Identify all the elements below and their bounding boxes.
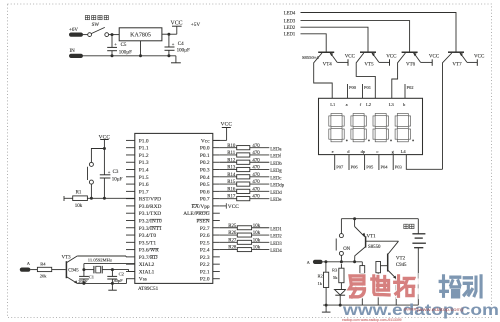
- svg-text:10k: 10k: [253, 246, 261, 251]
- MCU pin 15 P3.5/T1: [126, 241, 135, 243]
- svg-text:P0.3: P0.3: [200, 168, 210, 174]
- svg-text:P04: P04: [381, 164, 389, 169]
- wire to reset button: [91, 149, 104, 163]
- overline WR: [150, 247, 159, 249]
- resistor R16 470: [220, 190, 237, 192]
- svg-text:L1: L1: [330, 102, 335, 107]
- svg-text:+: +: [108, 169, 111, 174]
- wire XIAL2: [84, 263, 135, 265]
- svg-text:P0.7: P0.7: [200, 197, 210, 203]
- svg-text:470: 470: [252, 195, 260, 200]
- MCU pin 17 P3.7/RD: [126, 256, 135, 258]
- svg-text:P0.2: P0.2: [200, 160, 210, 166]
- MCU pin 23 P2.2: [213, 263, 220, 265]
- wire LED4 to VT7 base: [301, 13, 457, 52]
- svg-text:R11: R11: [227, 151, 236, 156]
- svg-text:470: 470: [252, 151, 260, 156]
- svg-text:470: 470: [252, 173, 260, 178]
- svg-text:KA7805: KA7805: [130, 33, 151, 39]
- MCU pin 1 P1.0: [126, 139, 135, 141]
- collector wire VT7: [443, 53, 452, 169]
- svg-text:470: 470: [252, 166, 260, 171]
- svg-text:100µF: 100µF: [177, 49, 190, 54]
- svg-text:P3.0/RXD: P3.0/RXD: [139, 204, 162, 210]
- VCC tick VT5: [389, 59, 391, 66]
- svg-text:R26: R26: [228, 231, 237, 236]
- svg-text:VT7: VT7: [452, 63, 462, 68]
- 7-segment digit 2: [351, 114, 366, 142]
- resistor R17 470: [220, 198, 237, 200]
- MCU pin 21 P2.0: [213, 278, 220, 280]
- stub wire segment f / net P01: [362, 84, 364, 98]
- svg-text:470: 470: [252, 158, 260, 163]
- svg-text:C2: C2: [119, 272, 124, 277]
- resistor R11 470: [220, 154, 237, 156]
- svg-text:+5V: +5V: [191, 22, 201, 28]
- svg-text:P07: P07: [336, 164, 344, 169]
- svg-text:AT89C51: AT89C51: [138, 286, 159, 292]
- MCU pin 11 P3.1/TXD: [126, 212, 135, 214]
- svg-text:10k: 10k: [253, 231, 261, 236]
- svg-text:P0.6: P0.6: [200, 189, 210, 195]
- svg-text:C3: C3: [113, 170, 119, 175]
- svg-text:30pF: 30pF: [113, 278, 123, 283]
- regulator U2 KA7805: [119, 28, 162, 41]
- svg-text:VCC: VCC: [474, 55, 485, 60]
- transistor VT7 S8550 PNP: [448, 51, 464, 53]
- MCU pin 24 P2.3: [213, 256, 220, 258]
- svg-text:LED1: LED1: [270, 227, 282, 232]
- svg-text:20pF: 20pF: [78, 279, 88, 284]
- svg-text:VCC: VCC: [345, 55, 356, 60]
- MCU pin 30 ALE/PROG: [213, 212, 220, 214]
- svg-text:P0.0: P0.0: [200, 146, 210, 152]
- VCC rail symbol / +5V: [176, 26, 178, 34]
- MCU pin 3 P1.2: [126, 154, 135, 156]
- MCU pin 22 P2.1: [213, 270, 220, 272]
- wire LED2 to VT5 base: [301, 27, 369, 51]
- svg-text:c: c: [376, 149, 378, 154]
- MCU U1 AT89C51 body: [135, 133, 213, 283]
- resistor R15 470: [220, 183, 237, 185]
- svg-text:100µF: 100µF: [119, 51, 132, 56]
- svg-text:VCC: VCC: [221, 122, 233, 128]
- stub wire / net P04: [378, 155, 380, 170]
- MCU pin 40 Vcc: [213, 139, 220, 141]
- svg-text:dp: dp: [361, 149, 366, 154]
- svg-text:LEDf: LEDf: [270, 155, 281, 160]
- svg-text:VCC: VCC: [171, 21, 183, 27]
- svg-text:ON: ON: [343, 247, 350, 252]
- MCU pin 39 P0.0: [213, 147, 220, 149]
- wire Vcc pin to VCC: [213, 139, 227, 141]
- svg-text:VT2: VT2: [396, 257, 406, 262]
- svg-text:LEDc: LEDc: [270, 176, 281, 181]
- stub wire / net P03: [392, 155, 394, 170]
- MCU pin 29 PSEN: [213, 219, 220, 221]
- svg-text:LED2: LED2: [284, 26, 296, 31]
- svg-text:P03: P03: [395, 164, 403, 169]
- stub wire / net P07: [334, 155, 336, 170]
- svg-text:470: 470: [252, 180, 260, 185]
- 7-segment digit 1: [329, 114, 344, 142]
- svg-text:10k: 10k: [75, 204, 83, 209]
- MCU pin 26 P2.5: [213, 241, 220, 243]
- svg-text:XIAL1: XIAL1: [139, 269, 155, 275]
- svg-text:P00: P00: [349, 85, 357, 90]
- svg-text:L3: L3: [389, 102, 395, 107]
- resistor R26 10k: [220, 234, 238, 236]
- svg-text:R15: R15: [227, 180, 236, 185]
- MCU pin 16 P3.6/WR: [126, 249, 135, 251]
- svg-text:L4: L4: [401, 149, 407, 154]
- svg-text:R28: R28: [228, 246, 237, 251]
- svg-text:LED3: LED3: [284, 20, 296, 25]
- VCC tick VT6: [431, 59, 433, 66]
- svg-text:LEDb: LEDb: [270, 162, 282, 167]
- svg-text:LED4: LED4: [270, 249, 282, 254]
- MCU pin 9 RST/VPD: [126, 198, 135, 200]
- svg-text:a: a: [346, 102, 348, 107]
- capacitor C4 100uF: [168, 34, 170, 47]
- svg-text:VT6: VT6: [406, 63, 416, 68]
- wire XIAL1: [112, 270, 134, 272]
- top rail (battery +): [341, 218, 418, 220]
- wire A to R4: [30, 269, 37, 271]
- transistor VT1 S8550 PNP: [354, 219, 356, 227]
- collector wire VT4: [314, 53, 333, 98]
- watermark white knockout block: [418, 276, 438, 297]
- overline RD: [150, 255, 158, 257]
- overline PSEN: [197, 218, 210, 220]
- MCU pin 6 P1.5: [126, 176, 135, 178]
- svg-text:C5: C5: [121, 43, 127, 48]
- svg-text:P0.5: P0.5: [200, 182, 210, 188]
- stub wire / net P05: [364, 155, 366, 170]
- svg-text:####(www.edatop.com): ####(www.edatop.com): [404, 307, 464, 312]
- svg-text:P0.4: P0.4: [200, 175, 210, 181]
- MCU pin 31 EA/Vpp: [213, 205, 220, 207]
- svg-text:10µF: 10µF: [112, 177, 123, 182]
- overline INT0: [150, 218, 161, 220]
- capacitor C3 10uF: [103, 149, 105, 175]
- svg-text:R12: R12: [227, 158, 236, 163]
- MCU pin 13 P3.3/INT1: [126, 227, 135, 229]
- wire SW to U2, junction C5: [109, 34, 120, 36]
- MCU pin 33 P0.6: [213, 190, 220, 192]
- svg-text:+: +: [172, 41, 175, 46]
- svg-text:P1.2: P1.2: [139, 153, 149, 159]
- wire U2 output: [162, 33, 177, 35]
- svg-text:10k: 10k: [253, 224, 261, 229]
- IN rail wire: [83, 55, 176, 57]
- svg-text:P2.0: P2.0: [200, 277, 210, 283]
- svg-text:LEDd: LEDd: [270, 191, 282, 196]
- wire R1 to RST pin: [87, 197, 134, 199]
- svg-text:P1.5: P1.5: [139, 175, 149, 181]
- transistor VT6 S8550 PNP: [402, 51, 418, 53]
- resistor R3 5k: [340, 264, 342, 268]
- svg-text:R2: R2: [318, 274, 323, 279]
- svg-text:XIAL2: XIAL2: [139, 262, 155, 268]
- diode VD1: [335, 290, 346, 296]
- collector wire VT5: [356, 53, 375, 98]
- VT3 emitter wire: [66, 277, 77, 284]
- VT1 collector wire: [355, 247, 366, 262]
- svg-text:C945: C945: [68, 269, 79, 274]
- svg-text:P1.6: P1.6: [139, 182, 149, 188]
- svg-text:R25: R25: [228, 224, 237, 229]
- svg-text:P2.6: P2.6: [200, 233, 210, 239]
- MCU pin 5 P1.4: [126, 169, 135, 171]
- MCU pin 38 P0.1: [213, 154, 220, 156]
- MCU pin 19 XIAL1: [126, 270, 135, 272]
- MCU pin 36 P0.3: [213, 169, 220, 171]
- svg-text:LEDe: LEDe: [270, 198, 281, 203]
- resistor R5: [361, 262, 363, 266]
- resistor R1 10k: [63, 196, 65, 201]
- svg-text:C4: C4: [178, 42, 184, 47]
- wire LED1 to VT4 base: [301, 34, 327, 52]
- svg-text:P05: P05: [366, 164, 374, 169]
- svg-text:1k: 1k: [318, 281, 323, 286]
- svg-text:VT3: VT3: [62, 255, 72, 260]
- svg-text:R17: R17: [227, 195, 236, 200]
- stub wire segment a / net P00: [347, 84, 349, 98]
- svg-text:VCC: VCC: [429, 55, 440, 60]
- MCU pin 8 P1.7: [126, 190, 135, 192]
- overline INT1: [150, 225, 161, 227]
- svg-text:P3.4/T0: P3.4/T0: [139, 233, 157, 239]
- resistor R14 470: [220, 176, 237, 178]
- resistor R6: [376, 262, 381, 273]
- stub wire segment b / net P02: [404, 84, 406, 98]
- svg-text:VT1: VT1: [367, 234, 377, 239]
- svg-text:R10: R10: [227, 144, 236, 149]
- svg-text:LEDg: LEDg: [270, 169, 282, 174]
- resistor R2 1k: [325, 262, 327, 272]
- svg-text:R4: R4: [40, 261, 46, 266]
- svg-text:P1.4: P1.4: [139, 168, 149, 174]
- svg-text:P3.1/TXD: P3.1/TXD: [139, 211, 161, 217]
- MCU pin 32 P0.7: [213, 198, 220, 200]
- svg-text:+6V: +6V: [69, 28, 78, 33]
- svg-text:P0.1: P0.1: [200, 153, 210, 159]
- resistor R13 470: [220, 169, 237, 171]
- svg-text:R13: R13: [227, 166, 236, 171]
- svg-text:EA/Vpp: EA/Vpp: [192, 204, 210, 210]
- VT2 base wire: [381, 265, 388, 267]
- svg-text:R3: R3: [332, 267, 338, 272]
- wire LED3 to VT6 base: [301, 21, 410, 52]
- MCU pin 35 P0.4: [213, 176, 220, 178]
- svg-text:LED4: LED4: [284, 11, 296, 16]
- emitter/ground rail: [77, 282, 126, 284]
- svg-text:VT5: VT5: [364, 63, 374, 68]
- 7-segment digit 3: [373, 114, 388, 142]
- transistor VT4 S8550 PNP: [318, 51, 334, 53]
- svg-text:P2.1: P2.1: [200, 269, 210, 275]
- VCC tick VT4: [347, 59, 349, 66]
- svg-text:P1.3: P1.3: [139, 160, 149, 166]
- resistor R25 10k: [220, 227, 238, 229]
- MCU pin 14 P3.4/T0: [126, 234, 135, 236]
- VT3 collector wire to P3.7/RD: [66, 256, 77, 263]
- svg-text:VCC: VCC: [228, 204, 239, 210]
- VCC tick VT7: [476, 59, 478, 66]
- decimal point digit 1: [346, 139, 348, 141]
- svg-text:RST/VPD: RST/VPD: [139, 197, 161, 203]
- svg-text:L2: L2: [366, 102, 371, 107]
- A rail wire: [323, 261, 363, 263]
- svg-text:P2.4: P2.4: [200, 248, 210, 254]
- 7-segment digit 4: [395, 114, 410, 142]
- VT2 emitter wire: [388, 270, 397, 279]
- wire R4 to VT3 base: [52, 269, 66, 271]
- svg-text:R16: R16: [227, 187, 236, 192]
- svg-text:P06: P06: [351, 164, 359, 169]
- MCU pin 12 P3.2/INT0: [126, 219, 135, 221]
- reset button S1: [89, 162, 93, 166]
- svg-text:P2.7: P2.7: [200, 226, 210, 232]
- svg-text:e: e: [332, 149, 334, 154]
- capacitor C2 30pF: [107, 275, 117, 277]
- svg-text:5k: 5k: [333, 275, 338, 280]
- svg-text:P1.1: P1.1: [139, 146, 149, 152]
- svg-text:Vss: Vss: [139, 277, 147, 283]
- svg-text:R1: R1: [76, 191, 82, 196]
- svg-text:SW: SW: [92, 23, 100, 28]
- label power-switch (CJK stroke art): [85, 16, 108, 20]
- battery label (CJK stroke art): [404, 224, 414, 228]
- MCU pin 37 P0.2: [213, 161, 220, 163]
- switch ON: [340, 219, 342, 234]
- decimal point digit 4: [412, 139, 414, 141]
- svg-text:LED2: LED2: [270, 235, 282, 240]
- svg-text:+: +: [114, 42, 117, 47]
- stub wire / net P06: [348, 155, 350, 170]
- resistor R10 470: [220, 147, 237, 149]
- svg-text:470: 470: [252, 144, 260, 149]
- svg-text:P3.5/T1: P3.5/T1: [139, 240, 157, 246]
- resistor R27 10k: [220, 241, 238, 243]
- svg-text:VCC: VCC: [386, 55, 397, 60]
- transistor VT2 C945 NPN: [387, 254, 389, 272]
- svg-text:R27: R27: [228, 238, 237, 243]
- svg-text:LED3: LED3: [270, 242, 282, 247]
- svg-text:LEDdp: LEDdp: [270, 184, 284, 189]
- MCU pin 7 P1.6: [126, 183, 135, 185]
- svg-text:LEDa: LEDa: [270, 147, 282, 152]
- MCU pin 34 P0.5: [213, 183, 220, 185]
- ground (battery section): [325, 305, 327, 312]
- decimal point digit 2: [368, 139, 370, 141]
- resistor R4 20k: [37, 267, 51, 271]
- transistor VT3 C945 NPN: [65, 261, 67, 278]
- svg-text:P2.3: P2.3: [200, 255, 210, 261]
- svg-text:IN: IN: [70, 49, 76, 54]
- MCU pin 4 P1.3: [126, 161, 135, 163]
- svg-text:P1.0: P1.0: [139, 138, 149, 144]
- watermark big characters (stroke art): [349, 276, 364, 297]
- U2 ground pin wire: [140, 41, 142, 56]
- wire L4 to VT7 collector: [406, 155, 442, 170]
- svg-text:S8550: S8550: [368, 245, 381, 250]
- svg-text:P2.5: P2.5: [200, 240, 210, 246]
- collector wire VT6: [392, 53, 406, 98]
- svg-text:C945: C945: [396, 263, 407, 268]
- VT1 base wire to VT2 collector: [366, 240, 399, 242]
- MCU pin 20 Vss: [126, 278, 135, 280]
- wire button to RST line: [90, 184, 92, 198]
- battery B1: [417, 219, 419, 234]
- svg-text:R14: R14: [227, 173, 236, 178]
- transistor VT5 S8550 PNP: [360, 51, 376, 53]
- svg-text:10k: 10k: [253, 238, 261, 243]
- display DS1 body: [319, 98, 423, 154]
- capacitor C5 100uF: [111, 35, 113, 48]
- svg-text:Vcc: Vcc: [201, 138, 210, 144]
- svg-text:P2.2: P2.2: [200, 262, 210, 268]
- MCU pin 2 P1.1: [126, 147, 135, 149]
- decimal point digit 3: [390, 139, 392, 141]
- overline EA: [192, 203, 199, 205]
- MCU pin 10 P3.0/RXD: [126, 205, 135, 207]
- capacitor C1 20pF: [79, 275, 89, 277]
- MCU pin 18 XIAL2: [126, 263, 135, 265]
- switch SW: [88, 33, 92, 37]
- svg-text:11.0592MHz: 11.0592MHz: [88, 257, 112, 262]
- resistor R28 10k: [220, 249, 238, 251]
- svg-text:P02: P02: [407, 85, 414, 90]
- MCU pin 25 P2.4: [213, 249, 220, 251]
- bottom rail: [323, 304, 418, 306]
- net label VCC at EA/Vpp: [220, 205, 227, 207]
- svg-text:20k: 20k: [40, 274, 48, 279]
- svg-text:P01: P01: [364, 85, 371, 90]
- svg-text:LED1: LED1: [284, 33, 296, 38]
- svg-text:VT4: VT4: [323, 63, 333, 68]
- svg-text:470: 470: [252, 187, 260, 192]
- MCU pin 27 P2.6: [213, 234, 220, 236]
- svg-text:eadtop.com www.eadtop.com-/511: eadtop.com www.eadtop.com-/5113399: [342, 318, 402, 322]
- overline PROG: [195, 211, 209, 213]
- svg-text:P1.7: P1.7: [139, 189, 149, 195]
- ground (power): [175, 56, 177, 63]
- MCU pin 28 P2.7: [213, 227, 220, 229]
- svg-text:C1: C1: [89, 275, 94, 280]
- wire +6V to SW: [83, 34, 88, 36]
- ground (crystal section): [111, 283, 113, 290]
- resistor R12 470: [220, 161, 237, 163]
